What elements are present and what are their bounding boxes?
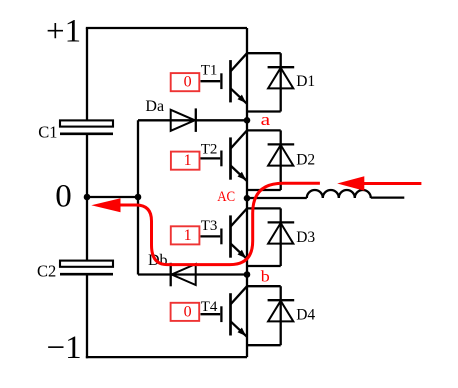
svg-text:D1: D1 xyxy=(296,73,315,90)
clamp diode Db xyxy=(171,263,196,287)
wire left rail top segment xyxy=(86,28,88,120)
svg-text:D3: D3 xyxy=(296,229,315,246)
transistor T3 xyxy=(201,208,248,259)
node b xyxy=(244,271,251,278)
capacitor C1 xyxy=(60,120,113,133)
svg-text:a: a xyxy=(261,110,271,129)
svg-text:+1: +1 xyxy=(46,14,81,50)
wire left rail middle segment xyxy=(86,134,88,261)
svg-text:0: 0 xyxy=(184,303,192,320)
wire left rail bottom segment xyxy=(86,274,88,358)
state box T4 value 0 xyxy=(171,303,200,321)
red arrow at node 0 xyxy=(91,198,120,212)
capacitor C2 xyxy=(60,261,113,275)
state box T3 value 1 xyxy=(171,226,200,244)
inductor L xyxy=(307,190,371,198)
wire Db anode from node b xyxy=(138,273,247,275)
state box T1 value 0 xyxy=(171,73,200,91)
svg-text:−1: −1 xyxy=(47,330,82,366)
svg-text:AC: AC xyxy=(217,189,235,205)
diode D4 xyxy=(247,286,294,345)
node a xyxy=(244,117,251,124)
node 0 on left rail xyxy=(84,194,91,201)
diode D1 xyxy=(247,53,294,111)
wire top rail xyxy=(86,27,247,29)
state box T2 value 1 xyxy=(171,152,200,170)
svg-text:T2: T2 xyxy=(201,142,218,158)
svg-text:1: 1 xyxy=(184,152,192,169)
transistor T1 xyxy=(201,53,248,104)
red arrow on AC line xyxy=(337,176,421,191)
svg-text:D2: D2 xyxy=(296,151,315,168)
node AC xyxy=(244,195,251,202)
svg-text:Da: Da xyxy=(145,98,164,115)
transistor T4 xyxy=(201,286,248,337)
diode D3 xyxy=(247,208,294,266)
clamp diode Da xyxy=(171,108,196,131)
wire main chain vertical xyxy=(246,28,248,357)
wire neutral 0 to clamp branch xyxy=(87,196,138,198)
wire Da anode to node a xyxy=(138,119,247,121)
svg-text:T3: T3 xyxy=(201,218,218,234)
node clamp branch junction xyxy=(135,194,142,201)
svg-text:C2: C2 xyxy=(37,262,56,281)
svg-text:D4: D4 xyxy=(296,307,315,324)
svg-text:1: 1 xyxy=(184,227,192,244)
svg-text:T4: T4 xyxy=(201,299,218,315)
wire bottom rail xyxy=(86,356,247,358)
svg-text:0: 0 xyxy=(184,74,192,91)
wire AC line right of inductor xyxy=(371,196,405,198)
wire clamp branch vertical xyxy=(137,120,139,274)
red current path xyxy=(121,183,320,264)
svg-text:b: b xyxy=(261,269,270,286)
svg-text:C1: C1 xyxy=(38,122,57,141)
svg-text:0: 0 xyxy=(55,179,72,215)
wire AC output line xyxy=(247,197,307,199)
svg-text:T1: T1 xyxy=(201,63,218,79)
diode D2 xyxy=(247,130,294,190)
transistor T2 xyxy=(201,130,248,181)
